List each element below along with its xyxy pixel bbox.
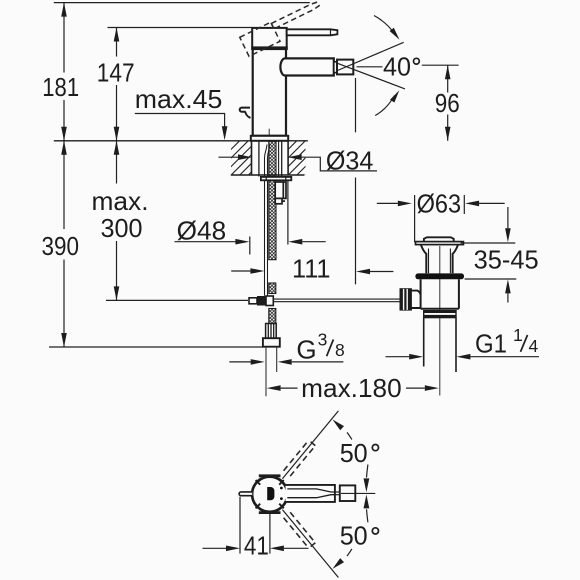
faucet cap	[252, 28, 287, 49]
tailpipe	[423, 318, 425, 367]
dashed spout upper position	[284, 440, 316, 476]
svg-text:35-45: 35-45	[474, 245, 539, 275]
drain flange rim	[416, 242, 464, 245]
waste body	[421, 279, 459, 309]
pop-up knob plan view	[239, 492, 252, 496]
deck hatching left	[171, 141, 283, 175]
spout plan centerline	[341, 492, 375, 494]
mounting nut below deck	[261, 177, 291, 180]
50deg arc arrow lower	[347, 549, 352, 556]
body circle	[252, 477, 287, 512]
aerator plan view	[335, 491, 340, 493]
faucet centerline	[268, 129, 270, 141]
shank inner wall right	[278, 142, 280, 177]
dimension 147	[116, 28, 118, 141]
horizontal pull rod to drain	[273, 298, 400, 300]
knurled adjuster knob	[400, 289, 411, 310]
svg-text:4: 4	[529, 336, 539, 356]
svg-text:max.45: max.45	[135, 84, 222, 114]
diagonal tick marks on circle	[256, 480, 284, 508]
rod coupling block	[249, 298, 257, 304]
drain flange funnel	[421, 245, 458, 273]
dimension O48	[249, 237, 251, 255]
svg-text:50: 50	[340, 438, 368, 468]
dimension 390	[63, 141, 65, 347]
svg-text:41: 41	[244, 531, 269, 561]
deck hatching right	[254, 141, 340, 175]
svg-text:max.: max.	[92, 186, 149, 216]
G3/8 nipple left edge / centerline extension	[265, 347, 267, 397]
extension line cap top	[108, 27, 253, 29]
dimension max.180	[266, 387, 268, 389]
svg-text:G1: G1	[475, 329, 507, 359]
hose connector knurl	[266, 324, 277, 339]
spout tube	[280, 58, 333, 75]
dashed spout lower position	[284, 512, 316, 548]
extension line spout height	[422, 64, 459, 66]
top and bottom chords	[259, 474, 281, 477]
40 degree arc arrow upper	[374, 16, 395, 34]
svg-text:40: 40	[383, 51, 411, 81]
spout neck	[334, 62, 337, 73]
lever cross-section (black D)	[267, 487, 274, 500]
lever handle	[287, 29, 338, 35]
swivel line upper 50deg	[282, 411, 338, 479]
svg-text:111: 111	[292, 253, 331, 283]
extension line top (faucet max height)	[54, 2, 310, 4]
countertop deck top line	[54, 140, 308, 142]
50deg arc arrow upper	[347, 432, 352, 439]
dashed lever and cap (raised position)	[240, 0, 326, 56]
spray angle fan line upper	[338, 42, 404, 70]
spout plan view	[286, 485, 335, 502]
svg-text:300: 300	[101, 213, 143, 243]
svg-text:181: 181	[42, 72, 79, 102]
spray angle fan line lower	[338, 63, 406, 89]
svg-text:G: G	[296, 334, 316, 364]
hose braid segment 3	[269, 309, 276, 324]
rubber seal (black band)	[415, 273, 464, 279]
dimension 96	[447, 65, 449, 141]
dimension 41	[239, 497, 241, 554]
extension line spout tip	[355, 78, 357, 132]
faucet body	[253, 49, 286, 136]
svg-text:50: 50	[340, 521, 368, 551]
pull rod (vertical, bends at top)	[265, 145, 268, 296]
dimension 35-45	[461, 242, 516, 244]
threaded shank braid (crosshatch)	[269, 141, 276, 260]
faucet cap bottom thick band	[251, 46, 288, 49]
dimension max.300	[116, 141, 118, 301]
shank outer wall right	[281, 142, 283, 177]
hose braid segment 2	[269, 283, 276, 294]
aerator box	[337, 60, 353, 75]
dimension 181	[63, 3, 65, 141]
svg-text:1: 1	[513, 325, 523, 345]
G3/8 nipple right edge	[276, 347, 278, 372]
spray angle bisector	[357, 66, 383, 68]
swivel line lower 50deg	[282, 510, 338, 578]
extension line hose end (390 bottom)	[49, 346, 263, 348]
svg-text:147: 147	[97, 57, 135, 87]
base flange	[251, 136, 288, 141]
svg-text:max.180: max.180	[301, 373, 402, 403]
svg-text:Ø48: Ø48	[177, 215, 227, 245]
thread collar G1 1/4	[424, 311, 456, 318]
dimension 111	[231, 270, 250, 272]
fixing stud and bracket	[275, 182, 286, 204]
svg-text:8: 8	[335, 340, 345, 360]
deck hole edge left	[251, 141, 253, 175]
screw dots	[280, 487, 283, 490]
svg-text:390: 390	[42, 231, 80, 261]
drain push cap	[424, 237, 454, 241]
pop-up rod hook	[240, 108, 251, 118]
hose nut G3/8	[263, 338, 280, 347]
dimension O63	[414, 195, 416, 242]
G1 1/4 dimension arrows	[386, 356, 410, 358]
svg-text:Ø63: Ø63	[417, 189, 462, 219]
svg-text:3: 3	[318, 330, 328, 350]
shank outer wall left	[258, 142, 260, 177]
deck hole edge right	[287, 141, 289, 175]
G3/8 dimension arrows	[229, 361, 251, 363]
dimension O34 leader	[218, 156, 238, 158]
drain centerline	[439, 246, 441, 396]
side port	[411, 291, 420, 308]
svg-text:96: 96	[435, 88, 460, 118]
40 degree arc arrow lower	[375, 96, 394, 116]
svg-text:Ø34: Ø34	[326, 145, 374, 175]
extension line hose connection level (max.300 bottom)	[106, 299, 248, 301]
countertop deck bottom line	[231, 174, 305, 176]
